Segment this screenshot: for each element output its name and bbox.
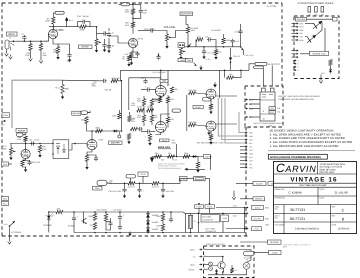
svg-text:LEAD: LEAD (190, 248, 195, 251)
value R46 (154, 114, 157, 117)
value R4 (53, 51, 58, 54)
wire c12 stub (203, 47, 205, 50)
resistor R80 10R (56, 210, 63, 213)
value C3 (67, 60, 73, 63)
svg-text:1.5K: 1.5K (53, 51, 58, 54)
ground R68 arrow (127, 140, 130, 145)
label spk c (253, 197, 265, 201)
svg-text:TA-8: TA-8 (233, 204, 237, 207)
svg-text:C: C (342, 209, 345, 213)
value R60 (42, 148, 47, 151)
label D3A (97, 208, 107, 211)
svg-text:FAX 521-6542: FAX 521-6542 (320, 171, 336, 174)
node tone b (139, 183, 141, 185)
wire C2 stub (23, 40, 25, 41)
wire c33 r (151, 131, 156, 133)
value C1B (235, 40, 241, 43)
value C30 (93, 81, 96, 84)
svg-text:N.U.: N.U. (56, 87, 61, 90)
wire p8-6 (240, 149, 244, 151)
svg-text:12340 World Trade Drive: 12340 World Trade Drive (320, 163, 347, 166)
label C50 (204, 154, 211, 158)
jack phase (17, 133, 27, 136)
wire r41 out (196, 125, 207, 126)
cell file label (275, 224, 285, 227)
label R1 (26, 52, 31, 55)
label fil 6l6 b (202, 219, 213, 222)
wire V1B grid (109, 36, 128, 43)
label 7025 (160, 79, 168, 82)
label R60 (42, 146, 45, 149)
cell assy no (290, 217, 305, 221)
value R27b (122, 58, 125, 61)
capacitor C32 (146, 87, 151, 91)
wire p5-3 (292, 29, 296, 31)
wire c32 l (141, 89, 146, 91)
svg-text:1/2W: 1/2W (125, 24, 130, 27)
wire r58 top (167, 95, 169, 97)
footswitch dashed box (204, 246, 255, 278)
wire earth (9, 229, 11, 240)
node tone c (162, 183, 164, 185)
label P5-5 (300, 36, 303, 39)
wire r92 (231, 265, 233, 268)
svg-text:1µ: 1µ (194, 220, 196, 223)
capacitor C84 (169, 217, 173, 222)
arrow V4A cath (213, 82, 217, 88)
resistor R23 (222, 38, 225, 44)
svg-text:P19-B: P19-B (197, 205, 203, 208)
svg-text:DRIVE: DRIVE (189, 268, 195, 271)
value R23 (226, 39, 230, 42)
wire C30 join (100, 80, 102, 82)
value R1 (25, 54, 30, 57)
label spk b (268, 182, 281, 186)
svg-text:FILAMENTS: FILAMENTS (206, 230, 217, 233)
wire R31 out (118, 80, 122, 82)
resistor R82 (93, 223, 96, 230)
node tone a (124, 183, 126, 185)
svg-text:470K: 470K (17, 138, 22, 141)
value R5 (80, 29, 85, 32)
wire C4B drop (140, 4, 142, 9)
label opt (283, 245, 288, 248)
notes divider rule (268, 149, 355, 151)
wire master line (87, 130, 122, 132)
ground reverb V (319, 79, 323, 84)
wire t31 stub (130, 178, 132, 183)
wire V2 plate (160, 70, 162, 85)
svg-text:DATE: DATE (320, 188, 326, 191)
wire p4a stub (9, 163, 13, 165)
node supply 6 (162, 211, 164, 213)
resistor R43 (209, 135, 212, 141)
wire p8-9 (240, 160, 244, 162)
label P8-2 (249, 135, 254, 138)
svg-text:350R: 350R (157, 225, 162, 228)
label V1-A (59, 29, 65, 32)
transistor Q21 (213, 262, 226, 269)
label P8-6 (249, 149, 253, 152)
wire q2 emitter (243, 50, 245, 55)
fuse F2 (121, 3, 130, 6)
wire p3 b (249, 103, 260, 105)
wire r57 top (159, 95, 161, 97)
ground R43 (209, 140, 212, 145)
value C36b (109, 190, 122, 193)
svg-text:100K: 100K (45, 20, 50, 23)
wire jack drop b (271, 65, 273, 86)
value R37a (132, 118, 135, 121)
triode V4-A (206, 89, 216, 99)
ground C12 (202, 55, 205, 60)
label R4 (54, 49, 58, 52)
capacitor C8 (135, 52, 139, 57)
svg-text:V1-A GAIN: V1-A GAIN (53, 29, 64, 32)
wire r83b (106, 221, 111, 230)
label p8 hdr (244, 126, 251, 129)
svg-text:7x8: 7x8 (277, 107, 280, 110)
ground fs drop (232, 195, 236, 200)
wire v5 plate (25, 144, 27, 150)
power jack J20 (243, 262, 250, 269)
ground V1B cathode (130, 61, 133, 66)
wire r69 g (86, 162, 88, 166)
node supply 7 (170, 211, 172, 213)
value C33 (145, 135, 147, 138)
svg-text:C12 .022: C12 .022 (207, 52, 214, 55)
node fil v2b (198, 222, 200, 224)
value 2K2 (206, 58, 211, 61)
capacitor C70 (137, 188, 141, 193)
svg-text:30-77131: 30-77131 (290, 208, 305, 212)
svg-text:4. ALL OPEN GROUNDS ARE ▽ EXC: 4. ALL OPEN GROUNDS ARE ▽ EXCEPT AS NOTE… (270, 133, 342, 136)
svg-text:350V: 350V (92, 85, 97, 88)
svg-text:C55 .05: C55 .05 (233, 55, 240, 58)
svg-text:TA-8: TA-8 (233, 215, 237, 218)
svg-text:BL-2 P15: BL-2 P15 (254, 217, 261, 220)
connector pin P2a (3, 120, 6, 122)
ground C6 (103, 48, 106, 53)
resistor R1 1M (29, 44, 32, 51)
note jack 2 (158, 165, 177, 168)
resistor R65 (118, 113, 121, 119)
address line 4 (320, 171, 336, 174)
wire r59 low (167, 123, 169, 128)
svg-text:560K: 560K (96, 127, 101, 130)
node drv a (187, 46, 189, 48)
svg-text:1W: 1W (122, 58, 125, 61)
svg-text:APPROVED: APPROVED (275, 197, 286, 200)
label P6-A (93, 186, 103, 190)
resistor R24 (214, 50, 217, 56)
wire r66 t (129, 112, 131, 116)
wire dstack (147, 212, 149, 233)
label P2 (2, 113, 10, 118)
svg-text:C36 .68: C36 .68 (104, 89, 111, 92)
value R37b (131, 120, 136, 123)
label C2 (21, 33, 24, 36)
wire fs gnd drop (233, 191, 235, 196)
cell dwg label2 (275, 208, 278, 211)
node sb3 (119, 232, 121, 234)
wire p19b stub (198, 208, 200, 213)
svg-text:YEL: YEL (300, 36, 303, 39)
node gain top (96, 26, 98, 28)
resistor R69 (85, 155, 88, 162)
resistor R8b 56K (131, 22, 134, 28)
value R52a (189, 89, 198, 92)
wire R3 bot (52, 24, 54, 27)
wire fs row3 (204, 264, 209, 266)
value R70c (184, 152, 189, 155)
svg-text:Rx 1K50R: Rx 1K50R (212, 29, 222, 32)
svg-text:DRAWN BY: DRAWN BY (275, 188, 286, 191)
label BIAS ADJ (158, 146, 171, 149)
svg-text:1/2W: 1/2W (125, 11, 130, 14)
wire v5 cath (25, 159, 27, 160)
triode V6-A (87, 140, 97, 150)
jack switch S5A (209, 262, 213, 266)
svg-text:.047µF: .047µF (34, 139, 40, 142)
value R44 (137, 114, 140, 117)
wire fil v1 (185, 213, 187, 232)
connector pin P8-8 (244, 156, 247, 158)
svg-text:DATE: DATE (332, 224, 337, 227)
arrow fs feed (185, 168, 206, 171)
wire fil bus (244, 208, 246, 233)
value R30 (65, 88, 69, 91)
capacitor C29 (30, 141, 35, 145)
capacitor C9 coupling (149, 28, 154, 32)
svg-text:DRIVE: DRIVE (81, 46, 89, 49)
label D22 (152, 221, 159, 224)
svg-text:10R: 10R (57, 208, 61, 211)
svg-text:(5) DIODES 1N5400 CONTINUITY O: (5) DIODES 1N5400 CONTINUITY OPERATION (270, 129, 334, 132)
wire plate node (49, 26, 79, 28)
label EXT (269, 111, 276, 115)
label P7-1 (298, 59, 300, 62)
connector pin P8-3 (244, 138, 247, 140)
wire r60 g (39, 151, 41, 154)
label P8-10 (249, 163, 253, 166)
svg-text:T.S.: T.S. (193, 255, 197, 258)
label V2 (167, 84, 170, 87)
resistor R66 (128, 116, 131, 122)
svg-text:3. ALL DIODES ARE TYPE 1N4448: 3. ALL DIODES ARE TYPE 1N4448 EXCEPT AS … (270, 137, 345, 140)
title VINTAGE 16 (290, 176, 337, 183)
svg-text:1K5: 1K5 (197, 35, 200, 38)
svg-text:C13 .05: C13 .05 (235, 31, 242, 34)
label spk a (253, 182, 266, 186)
connector pin P7-4 (293, 69, 296, 71)
label fil 63 b (206, 230, 217, 233)
label DRIVE (78, 45, 92, 49)
value R27 (123, 56, 126, 59)
wire V1A plate (52, 27, 54, 30)
svg-text:30-610: 30-610 (255, 206, 261, 209)
svg-text:J1: J1 (9, 37, 11, 40)
svg-text:PI NET: PI NET (195, 106, 202, 109)
connector P19-B (195, 205, 204, 209)
wire v4b cath (210, 131, 212, 135)
resistor R68 feed (24, 136, 27, 141)
connector pin P7-1 (293, 59, 296, 61)
wire q cluster b (212, 40, 216, 47)
svg-text:13-FEB-04: 13-FEB-04 (338, 228, 350, 231)
connector pin P7-3 (293, 66, 296, 68)
resistor R71 (196, 162, 199, 168)
value R64 (96, 127, 101, 130)
connector pin P8-1 (244, 131, 247, 133)
resistor R67 (131, 127, 138, 130)
connector pin P5-5 (295, 36, 298, 38)
svg-text:San Diego, CA 92128: San Diego, CA 92128 (320, 166, 343, 169)
svg-text:220K: 220K (80, 29, 85, 32)
svg-text:1. ALL RESISTORS ARE 1/4W EXC: 1. ALL RESISTORS ARE 1/4W EXCEPT AS NOTE… (270, 145, 339, 148)
node fil v2a (198, 213, 200, 215)
svg-text:450V: 450V (172, 141, 177, 144)
wire grid net f (151, 122, 153, 125)
svg-text:FOOT SWITCH (OPT): FOOT SWITCH (OPT) (206, 243, 225, 246)
svg-text:PHASE: PHASE (18, 129, 26, 132)
value R8b2 (125, 24, 130, 27)
wire rail decc (167, 71, 169, 86)
diode D21 (146, 212, 150, 220)
label P3-4 (249, 116, 254, 119)
wire q30 base (305, 23, 314, 25)
value R68 (17, 138, 22, 141)
label P4C (2, 202, 9, 206)
connector pin P5-4 (295, 32, 298, 34)
label plus (45, 214, 47, 217)
label PI (193, 105, 203, 109)
value R22 (212, 29, 222, 32)
wire r66 b (129, 121, 131, 124)
value C14 (245, 54, 255, 57)
svg-text:2. ALL CAPACITORS IN MICROFAR: 2. ALL CAPACITORS IN MICROFARADS EXCEPT … (270, 141, 353, 144)
label R19 (157, 215, 162, 218)
node B1 dot (66, 19, 68, 21)
wire decb drop (128, 78, 130, 110)
wire r65 t (118, 110, 120, 113)
label V6-A (98, 139, 103, 142)
transistor Q4 arrow (194, 63, 197, 67)
node fil ba (244, 207, 246, 209)
svg-text:.1: .1 (145, 85, 147, 88)
label V1A GAIN (53, 29, 64, 32)
wire q30 e drop (324, 28, 326, 51)
potentiometer REVERB level (10, 148, 16, 155)
wire c71 t (162, 183, 164, 187)
node t1 bot (190, 232, 192, 234)
value C6 (108, 45, 112, 48)
pin fs1 (204, 247, 205, 250)
label fs1 (190, 248, 195, 251)
resistor R63 (85, 117, 88, 124)
capacitor C82 (118, 214, 125, 220)
wire drv line (185, 46, 241, 48)
wire pi drop (121, 81, 123, 131)
svg-text:P2-IN: P2-IN (3, 114, 8, 117)
resistor R38 (147, 109, 154, 112)
wire q cluster a (195, 40, 197, 47)
value C60x (30, 161, 40, 164)
label INT (269, 107, 276, 111)
diode D10 (113, 130, 119, 133)
label C47 (172, 139, 175, 142)
svg-text:BLACK: BLACK (256, 182, 263, 185)
svg-text:4 MOUNTING SCREW HOLES: 4 MOUNTING SCREW HOLES (298, 2, 334, 5)
wire p8-11 (240, 167, 244, 169)
jack switch S5B (209, 266, 213, 270)
capacitor C36b (122, 188, 126, 193)
value R20b (191, 29, 196, 32)
label VOLUME (164, 25, 176, 29)
ground input jack 2 (9, 55, 13, 60)
svg-text:1500: 1500 (154, 116, 158, 119)
wire tone out (159, 179, 187, 184)
wire r81-2 (94, 212, 96, 214)
node drv c (223, 46, 225, 48)
label Q4B (186, 59, 193, 63)
chassis border right lower (245, 127, 247, 236)
label P8-3 (249, 138, 253, 141)
node fil v3a (222, 213, 224, 215)
cell rev val b (342, 218, 345, 222)
resistor R76 (152, 182, 159, 185)
connector fs2 (199, 255, 202, 257)
value R42 (154, 97, 157, 100)
wire R2 low (40, 51, 42, 60)
connector P19-A (205, 205, 215, 209)
wire R12 gnd (131, 58, 133, 61)
svg-text:CARVIN: CARVIN (276, 161, 317, 175)
label C4B (143, 9, 148, 12)
wire r39 (149, 140, 151, 142)
svg-text:AMPLIFIER: AMPLIFIER (181, 13, 192, 16)
wire fil ext a (216, 207, 245, 209)
triode V1-A (48, 29, 57, 38)
note line 2 (270, 141, 353, 144)
cell date3 label (332, 224, 337, 227)
svg-text:D3A 1N4003: D3A 1N4003 (97, 208, 107, 211)
value C12 (207, 52, 214, 55)
value R2 (43, 54, 48, 57)
node in dot (24, 40, 26, 42)
wire grid net d (151, 110, 153, 115)
resistor R34 (142, 115, 145, 122)
wire r61 g (23, 166, 26, 168)
label V3 (167, 120, 170, 123)
capacitor C11 (156, 55, 160, 60)
node rvb a (25, 143, 27, 145)
potentiometer DEPTH (180, 48, 186, 55)
wire supply bottom (74, 232, 246, 234)
wire p3 d (249, 116, 260, 118)
speaker jack top 2 (270, 88, 274, 91)
svg-text:C36 22µF 450V: C36 22µF 450V (109, 190, 122, 193)
ground R24 (214, 55, 217, 60)
svg-text:+12: +12 (249, 103, 252, 106)
resistor R95 (329, 60, 332, 66)
ground input jack (5, 52, 9, 57)
wire R3 top (53, 13, 55, 17)
wire grid net g (143, 122, 145, 126)
wire bus grey 4 (239, 112, 244, 133)
label P10 MAINS (179, 177, 187, 181)
wire screen loop (224, 70, 226, 77)
